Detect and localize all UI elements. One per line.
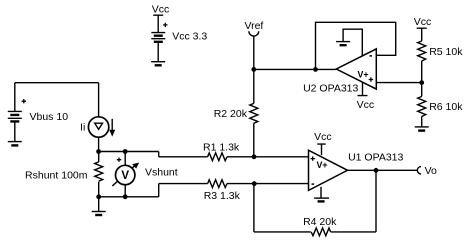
node: shunt bottom rail [99, 196, 159, 198]
wire R5 to node [421, 61, 423, 97]
ground (below Vbus) [8, 142, 22, 146]
wire output down to R4 row [375, 170, 377, 232]
svg-text:R3 1.3k: R3 1.3k [204, 190, 241, 202]
wire to R1 [159, 156, 208, 158]
voltmeter Vshunt [112, 152, 177, 197]
junction dot shunt-top left [96, 149, 101, 154]
svg-text:V+: V+ [316, 160, 327, 170]
wire battery V3 to ground [157, 42, 159, 62]
junction dot R3/R4 node [252, 181, 257, 186]
resistor R5 10k [418, 41, 464, 61]
junction dot Vref node [251, 67, 256, 72]
svg-text:Ii: Ii [80, 122, 85, 134]
svg-text:R5 10k: R5 10k [429, 46, 463, 58]
svg-text:Vshunt: Vshunt [145, 166, 178, 178]
port Vref [244, 20, 263, 70]
wire R4 up to R3 node [253, 184, 255, 232]
ground (U1 V-) [314, 198, 329, 201]
wire Vref node down [253, 70, 255, 104]
op-amp U2 OPA313 [303, 49, 376, 95]
junction dot voltmeter top [123, 149, 128, 154]
svg-text:Vbus 10: Vbus 10 [30, 111, 69, 123]
junction dot shunt-bottom left [96, 194, 101, 199]
svg-text:V+: V+ [357, 69, 368, 79]
svg-text:R6 10k: R6 10k [429, 101, 463, 113]
resistor Rshunt 100m [25, 152, 103, 197]
U1 V- stub [320, 187, 322, 198]
battery V3 Vcc 3.3 [151, 23, 207, 43]
svg-text:Vcc: Vcc [314, 131, 332, 143]
ground (U2 V-) [336, 42, 350, 46]
svg-text:Vcc: Vcc [414, 16, 432, 28]
wire U2 + input to divider [376, 82, 421, 84]
wire Vref node to U2 output [254, 68, 336, 70]
wire jog to R3 row [158, 184, 160, 197]
svg-text:Vref: Vref [244, 20, 263, 32]
ground (shunt bottom) [92, 197, 106, 215]
svg-text:V: V [121, 170, 129, 182]
junction dot output node [374, 168, 379, 173]
ground (below V3) [151, 62, 165, 66]
wire R3 to U1 - input [227, 183, 309, 185]
wire U2 feedback loop [316, 22, 396, 69]
node: shunt top rail [99, 151, 159, 153]
wire U1 output to Vo [348, 169, 418, 171]
power flag Vcc (top battery V3) [152, 4, 170, 33]
svg-text:Vcc: Vcc [152, 4, 170, 16]
wire to R3 [159, 183, 208, 185]
wire R6 to ground [421, 117, 423, 127]
junction dot U2 feedback tap [313, 67, 318, 72]
wire current source to shunt node [98, 137, 100, 151]
resistor R4 20k [303, 216, 337, 236]
wire R4 right segment [331, 231, 376, 233]
wire R4 left segment [254, 231, 311, 233]
wire Vbus top rail [15, 82, 99, 84]
resistor R2 20k [214, 103, 258, 123]
current source Ii [80, 117, 115, 137]
U2 V- stub wire to ground [343, 29, 362, 56]
wire R2 to R1 node [253, 123, 255, 157]
wire jog to R1 row [158, 152, 160, 157]
svg-text:U1 OPA313: U1 OPA313 [348, 152, 403, 164]
power flag Vcc (U2 V+) [357, 82, 375, 111]
resistor R1 1.3k [203, 141, 240, 160]
ground (below R6) [415, 127, 429, 131]
svg-text:R1 1.3k: R1 1.3k [203, 141, 240, 153]
power flag Vcc (U1 V+) [314, 131, 332, 155]
wire Vbus to ground [14, 121, 16, 141]
port Vo [417, 165, 437, 177]
wire R1 to U1 + input [227, 156, 309, 158]
junction dot voltmeter bottom [123, 194, 128, 199]
battery Vbus 10 [8, 83, 68, 124]
junction dot divider mid [419, 80, 424, 85]
resistor R6 10k [418, 97, 464, 117]
svg-text:Vcc 3.3: Vcc 3.3 [172, 31, 207, 43]
op-amp U1 OPA313 [309, 150, 404, 190]
svg-text:U2 OPA313: U2 OPA313 [303, 83, 358, 95]
svg-text:Rshunt 100m: Rshunt 100m [25, 169, 88, 181]
svg-text:Vcc: Vcc [357, 99, 375, 111]
junction dot R1/R2 node [252, 154, 257, 159]
svg-text:R2 20k: R2 20k [214, 108, 248, 120]
power flag Vcc (above R5) [414, 16, 432, 41]
svg-text:Vo: Vo [425, 165, 437, 177]
resistor R3 1.3k [204, 180, 241, 202]
svg-text:R4 20k: R4 20k [303, 216, 337, 228]
wire rail down to current source [98, 83, 100, 117]
